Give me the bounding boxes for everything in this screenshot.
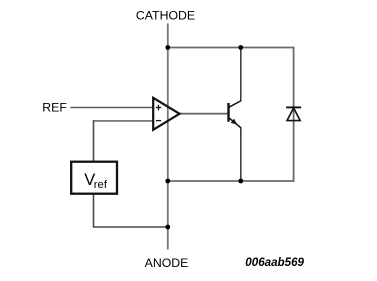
label Vref: [84, 171, 108, 191]
op-amp U1: [153, 98, 179, 130]
svg-text:006aab569: 006aab569: [245, 256, 304, 269]
node: junction Vref return/anode: [165, 225, 170, 230]
wire: transistor emitter vertical: [240, 128, 242, 181]
wire: REF input to op-amp +: [71, 107, 154, 109]
wire: top horizontal rail: [168, 47, 294, 49]
node: junction emitter/bottom rail: [238, 179, 243, 184]
svg-text:ANODE: ANODE: [145, 256, 189, 270]
wire: Vref to anode horizontal: [93, 226, 168, 228]
svg-text:CATHODE: CATHODE: [136, 9, 195, 23]
wire: cathode-anode vertical rail: [167, 24, 169, 250]
wire: bottom horizontal rail: [168, 180, 294, 182]
transistor Q1: [229, 101, 242, 129]
svg-text:ref: ref: [94, 179, 108, 191]
Vref source block: [71, 162, 117, 194]
wire: op-amp - input horizontal: [94, 120, 154, 122]
wire: transistor collector vertical: [240, 48, 242, 101]
node: junction collector/top rail: [238, 45, 243, 50]
node: junction anode/bottom rail: [165, 179, 170, 184]
svg-text:REF: REF: [42, 101, 67, 115]
wire: diode branch vertical: [293, 47, 295, 182]
node: junction cathode/top rail: [165, 45, 170, 50]
wire: Vref box top vertical: [93, 120, 95, 162]
wire: Vref box bottom vertical: [93, 194, 95, 228]
wire: op-amp output to transistor base: [180, 113, 229, 115]
diode D1: [286, 107, 301, 120]
